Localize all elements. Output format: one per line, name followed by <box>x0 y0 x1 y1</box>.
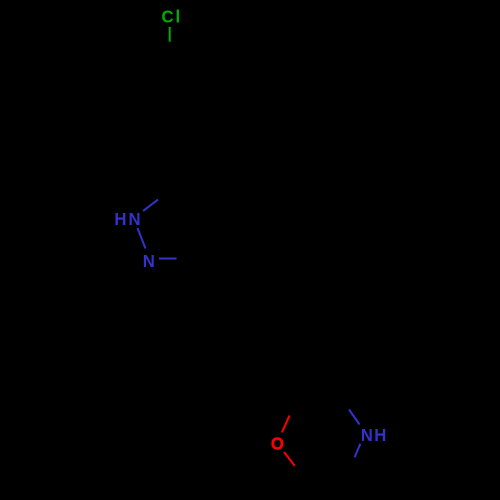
bond O-C up (red half-bond) <box>282 416 290 433</box>
svg-text:N: N <box>129 208 141 229</box>
bond N1-C5 (blue half-bond up-right) <box>143 200 158 211</box>
bond N2-C3 (blue half-bond horizontal) <box>159 258 177 260</box>
svg-text:l: l <box>176 6 181 27</box>
bond N4-C down-left (blue half-bond) <box>355 444 361 458</box>
bond N4-C up-left (blue half-bond) <box>349 410 360 425</box>
svg-text:N: N <box>361 424 373 445</box>
atom N2 (pyrazole N label) <box>143 250 155 271</box>
atom O (morpholine oxygen label) <box>271 433 284 454</box>
svg-text:H: H <box>114 208 126 229</box>
atom N4H (morpholine NH label) <box>361 424 387 445</box>
svg-text:H: H <box>374 424 386 445</box>
atom Cl (chlorine label) <box>162 6 181 27</box>
bond Cl-C (green half-bond) <box>169 27 171 42</box>
svg-text:C: C <box>162 6 175 27</box>
bond O-C down (red half-bond) <box>284 452 295 466</box>
svg-text:N: N <box>143 250 155 271</box>
bond N1-N2 (blue bond) <box>138 228 146 249</box>
svg-text:O: O <box>271 433 284 454</box>
atom N1H (pyrazole NH label) <box>114 208 140 229</box>
